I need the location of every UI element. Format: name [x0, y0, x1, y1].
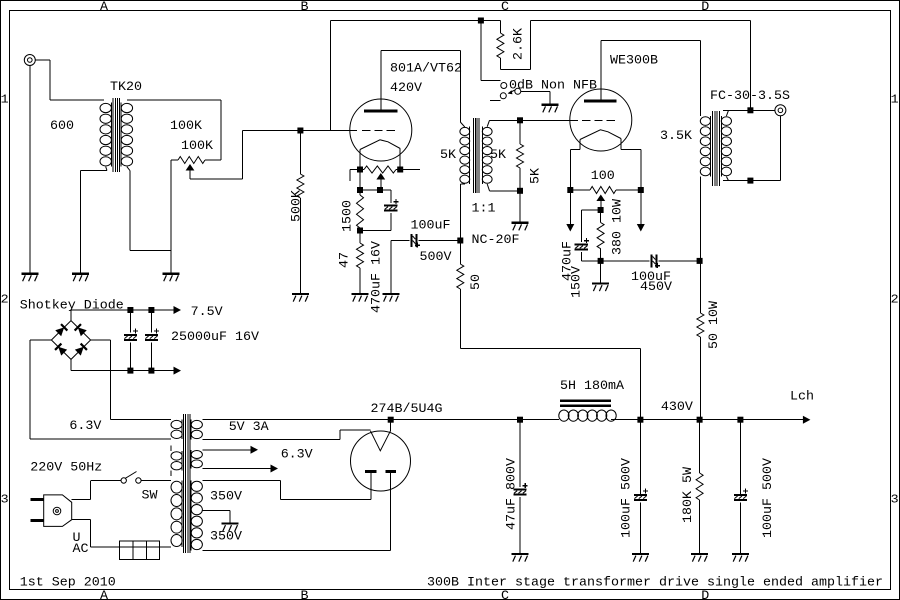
- svg-text:801A/VT62: 801A/VT62: [390, 62, 462, 77]
- svg-text:450V: 450V: [640, 280, 672, 295]
- svg-text:1:1: 1:1: [472, 202, 496, 217]
- svg-text:B: B: [301, 589, 309, 600]
- svg-text:47: 47: [338, 252, 353, 268]
- svg-text:D: D: [701, 0, 709, 15]
- svg-text:47uF 800V: 47uF 800V: [505, 458, 520, 530]
- svg-text:1: 1: [891, 92, 899, 106]
- svg-text:100uF: 100uF: [411, 219, 451, 234]
- svg-text:A: A: [100, 0, 108, 15]
- svg-text:NC-20F: NC-20F: [472, 233, 520, 248]
- svg-text:150V: 150V: [570, 266, 585, 298]
- svg-text:1: 1: [1, 92, 9, 106]
- svg-text:TK20: TK20: [110, 80, 142, 95]
- svg-text:350V: 350V: [210, 530, 242, 545]
- svg-text:Lch: Lch: [790, 390, 814, 405]
- svg-text:100: 100: [591, 169, 615, 184]
- svg-text:100uF 500V: 100uF 500V: [761, 458, 776, 538]
- svg-text:WE300B: WE300B: [610, 54, 658, 69]
- svg-text:500V: 500V: [420, 250, 452, 265]
- svg-text:SW: SW: [142, 489, 158, 504]
- svg-text:3: 3: [1, 492, 9, 506]
- svg-text:5K: 5K: [490, 148, 506, 163]
- svg-text:100K: 100K: [170, 119, 202, 134]
- svg-text:6.3V: 6.3V: [281, 448, 313, 463]
- svg-text:420V: 420V: [390, 81, 422, 96]
- svg-text:6.3V: 6.3V: [69, 419, 101, 434]
- svg-text:5K: 5K: [529, 168, 544, 184]
- svg-text:0dB Non NFB: 0dB Non NFB: [509, 78, 597, 93]
- svg-text:380 10W: 380 10W: [611, 199, 626, 255]
- svg-text:5K: 5K: [440, 148, 456, 163]
- svg-text:7.5V: 7.5V: [191, 305, 223, 320]
- svg-text:2: 2: [891, 292, 899, 306]
- svg-text:2.6K: 2.6K: [512, 28, 527, 60]
- svg-text:2: 2: [1, 292, 9, 306]
- svg-text:430V: 430V: [661, 400, 693, 415]
- svg-text:100uF 500V: 100uF 500V: [620, 458, 635, 538]
- svg-text:180K 5W: 180K 5W: [681, 467, 696, 523]
- svg-text:3: 3: [891, 492, 899, 506]
- svg-text:220V 50Hz: 220V 50Hz: [30, 460, 102, 475]
- svg-text:5V 3A: 5V 3A: [229, 420, 269, 435]
- svg-text:274B/5U4G: 274B/5U4G: [371, 402, 443, 417]
- svg-text:600: 600: [50, 119, 74, 134]
- svg-text:1500: 1500: [340, 200, 355, 232]
- svg-text:100K: 100K: [181, 139, 213, 154]
- svg-text:Shotkey Diode: Shotkey Diode: [20, 299, 124, 314]
- svg-text:25000uF 16V: 25000uF 16V: [171, 330, 259, 345]
- svg-text:AC: AC: [73, 542, 89, 557]
- svg-text:5H 180mA: 5H 180mA: [560, 379, 624, 394]
- svg-text:3.5K: 3.5K: [660, 129, 692, 144]
- svg-text:470uF 16V: 470uF 16V: [370, 241, 385, 313]
- svg-text:1st Sep 2010: 1st Sep 2010: [20, 576, 116, 591]
- svg-text:300B Inter stage transformer d: 300B Inter stage transformer drive singl…: [427, 576, 883, 591]
- svg-text:B: B: [301, 0, 309, 15]
- svg-text:500K: 500K: [290, 190, 305, 222]
- svg-text:350V: 350V: [210, 490, 242, 505]
- svg-text:50 10W: 50 10W: [707, 301, 722, 349]
- svg-text:50: 50: [469, 274, 484, 290]
- svg-text:C: C: [501, 0, 509, 15]
